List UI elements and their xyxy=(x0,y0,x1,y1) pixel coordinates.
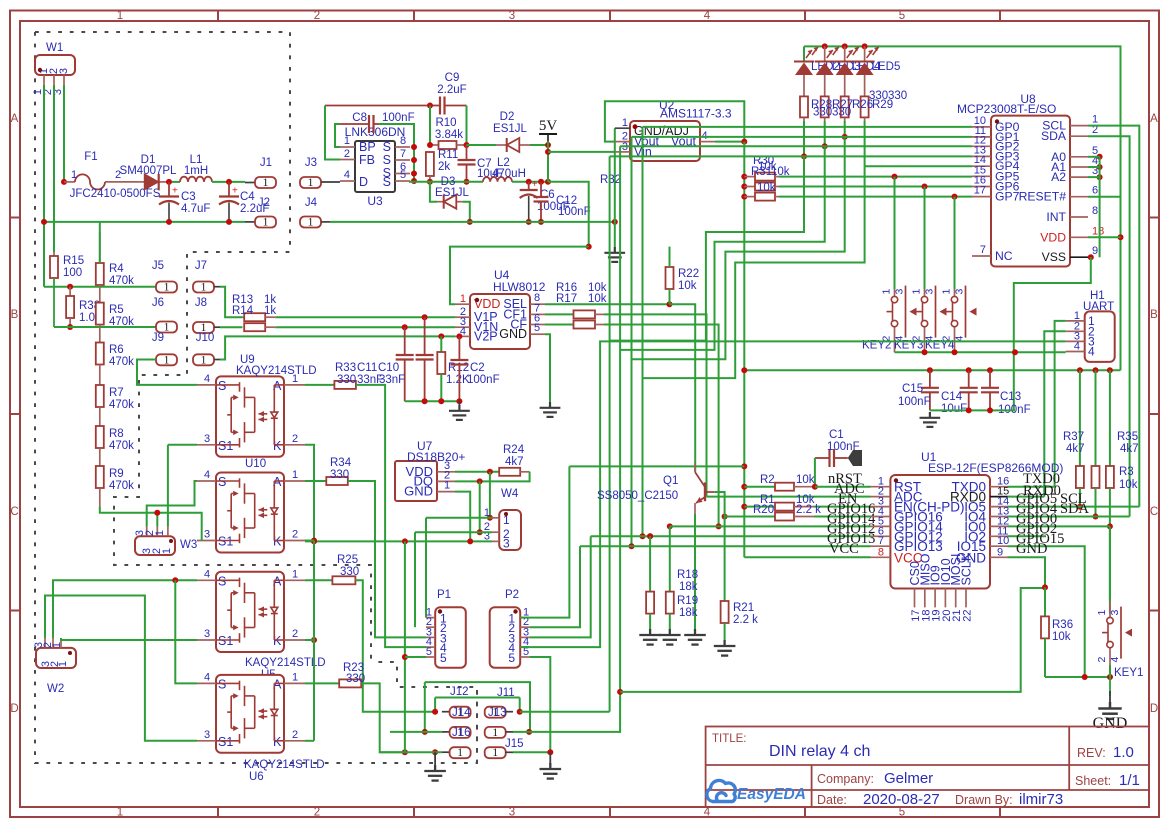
svg-text:R20: R20 xyxy=(753,504,774,516)
svg-text:1: 1 xyxy=(292,469,298,481)
svg-text:S: S xyxy=(218,677,226,691)
svg-text:DS18B20+: DS18B20+ xyxy=(407,450,465,464)
wire GPIO16 row xyxy=(814,516,871,518)
svg-text:J3: J3 xyxy=(305,157,317,169)
capacitor C3 4.7uF xyxy=(168,182,170,197)
svg-text:5: 5 xyxy=(426,646,432,658)
svg-text:J10: J10 xyxy=(196,332,215,344)
A0 A1 A2 junction dots xyxy=(1097,154,1103,160)
svg-text:LED5: LED5 xyxy=(872,61,901,73)
dashed isolation boundary (mains side) xyxy=(35,32,371,662)
svg-text:10k: 10k xyxy=(1119,479,1138,491)
svg-text:C4: C4 xyxy=(240,191,255,203)
svg-text:10k: 10k xyxy=(1052,631,1071,643)
svg-text:330: 330 xyxy=(869,90,888,102)
resistor R34 330 xyxy=(326,477,348,485)
svg-text:W2: W2 xyxy=(47,683,64,695)
svg-text:C8: C8 xyxy=(352,112,367,124)
svg-text:2020-08-27: 2020-08-27 xyxy=(863,791,940,808)
resistor R22 10k xyxy=(667,301,673,307)
LED LED5 xyxy=(864,46,866,61)
svg-text:S: S xyxy=(383,140,391,154)
svg-text:3: 3 xyxy=(509,10,515,22)
connector J1 xyxy=(245,182,255,184)
wire GPIO12 row xyxy=(647,533,653,539)
svg-text:1: 1 xyxy=(492,727,498,739)
node C10 top xyxy=(422,314,428,320)
svg-text:SM4007PL: SM4007PL xyxy=(120,165,178,177)
pad J16 row2 left xyxy=(422,729,428,735)
svg-text:R14: R14 xyxy=(232,305,254,317)
connector J8 xyxy=(193,322,214,333)
wire LED top rail xyxy=(804,46,1121,370)
wire Q1 emitter down xyxy=(694,514,696,629)
svg-text:330: 330 xyxy=(888,90,907,102)
svg-text:S1: S1 xyxy=(218,439,233,453)
wire 5V to U4 supply riser xyxy=(548,182,589,247)
wire J15 row right xyxy=(513,751,550,753)
wire W4.1 to P1.1 xyxy=(425,518,427,618)
svg-text:S1: S1 xyxy=(218,735,233,749)
wire row2 left segment xyxy=(390,731,442,733)
wire P1.5 stub xyxy=(405,656,426,658)
svg-text:U6: U6 xyxy=(249,771,264,783)
wire keys common bottom xyxy=(895,351,1066,353)
ground below R32 line xyxy=(604,247,625,262)
svg-text:J7: J7 xyxy=(195,260,207,272)
ground U4 GND xyxy=(540,402,561,417)
svg-text:D: D xyxy=(10,703,18,715)
wire row3 line xyxy=(380,751,442,753)
svg-text:S: S xyxy=(383,175,391,189)
capacitor C7 10uF xyxy=(466,145,468,160)
svg-text:J1: J1 xyxy=(260,157,272,169)
svg-text:3: 3 xyxy=(509,807,515,819)
svg-text:AMS1117-3.3: AMS1117-3.3 xyxy=(660,107,732,121)
svg-text:6: 6 xyxy=(1092,185,1098,197)
svg-text:R17: R17 xyxy=(556,293,577,305)
svg-text:8: 8 xyxy=(878,546,884,558)
svg-text:4: 4 xyxy=(204,568,210,580)
svg-text:GND: GND xyxy=(404,484,433,499)
svg-text:1: 1 xyxy=(117,10,123,22)
resistor R15 100 xyxy=(53,252,55,256)
wire VDD row to R24 xyxy=(455,471,499,473)
wire W4.2 to P1.2 xyxy=(414,532,416,627)
svg-text:Date:: Date: xyxy=(817,793,847,807)
svg-text:100: 100 xyxy=(63,267,82,279)
svg-text:+: + xyxy=(232,186,238,197)
svg-text:GP7: GP7 xyxy=(995,190,1020,204)
node GND branch xyxy=(1042,584,1048,590)
svg-text:7: 7 xyxy=(400,148,406,160)
wire GP1 row xyxy=(632,136,973,138)
svg-text:5: 5 xyxy=(508,651,515,665)
svg-text:1: 1 xyxy=(308,177,314,189)
svg-text:100nF: 100nF xyxy=(898,396,931,408)
svg-text:5: 5 xyxy=(899,10,905,22)
connector W2 xyxy=(36,648,76,668)
rail junction dots xyxy=(741,367,747,373)
wire R25 out to J12 row1 xyxy=(355,580,435,711)
svg-text:3: 3 xyxy=(204,729,210,741)
svg-text:GND: GND xyxy=(499,327,527,341)
svg-text:KEY1: KEY1 xyxy=(1114,667,1143,679)
wire CF to GPIO14 staircase xyxy=(604,325,719,527)
node R35 SDA xyxy=(1093,514,1099,520)
resistor R20 2.2k xyxy=(722,514,728,520)
wire R33 out to P1.4 xyxy=(356,385,426,647)
wire LED4 col to GP1 xyxy=(844,121,846,137)
svg-text:4: 4 xyxy=(704,10,711,22)
resistor R14 1k xyxy=(244,323,265,331)
svg-text:470k: 470k xyxy=(109,275,134,287)
wire U5.A to R25 xyxy=(305,579,332,581)
svg-text:VSS: VSS xyxy=(1042,250,1066,264)
photoMOS relay U9 KAQY214STLD xyxy=(216,376,284,456)
wire 5V column xyxy=(547,141,549,182)
resistor R1 10k xyxy=(741,504,747,510)
svg-text:8: 8 xyxy=(400,135,406,147)
svg-text:1: 1 xyxy=(881,289,893,295)
svg-text:ES1JL: ES1JL xyxy=(435,187,469,199)
net flag GND at C1 xyxy=(848,450,862,466)
svg-text:1: 1 xyxy=(292,568,298,580)
svg-text:KAQY214STLD: KAQY214STLD xyxy=(236,365,317,377)
wire C9 left to FB xyxy=(325,106,340,160)
key column junctions xyxy=(892,174,898,180)
resistor R26 330 xyxy=(841,96,849,117)
svg-text:GND: GND xyxy=(1093,715,1128,732)
svg-text:4: 4 xyxy=(1088,345,1095,359)
wire U4 GND down xyxy=(545,334,550,402)
svg-text:J16: J16 xyxy=(452,727,471,739)
svg-text:REV:: REV: xyxy=(1077,746,1106,760)
svg-text:1: 1 xyxy=(941,289,953,295)
svg-text:J6: J6 xyxy=(152,297,164,309)
resistor R31 10k xyxy=(741,184,747,190)
wire J4 ground line xyxy=(330,221,615,223)
svg-text:F1: F1 xyxy=(84,151,97,163)
wire GP0 staircase column xyxy=(642,127,644,536)
svg-text:W3: W3 xyxy=(180,539,197,551)
LED rail junction dots xyxy=(822,43,828,49)
push button KEY3 xyxy=(924,280,926,296)
node R3 GPIO0 xyxy=(1107,523,1113,529)
svg-text:4k7: 4k7 xyxy=(1066,443,1085,455)
resistor R33 330 xyxy=(334,381,356,389)
ground KEY1 xyxy=(1098,702,1121,719)
wire Q1 base to R20 xyxy=(714,492,724,517)
wire KEY1 bottom row xyxy=(1045,676,1110,678)
node C4 top xyxy=(226,179,232,185)
wire C8 right to S pins xyxy=(379,124,414,181)
resistor R13 1k xyxy=(243,316,245,318)
wire 3V3 rail xyxy=(744,369,1120,371)
IC U8 MCP23008T-E/SO xyxy=(991,116,1070,267)
node C9/R11 column top xyxy=(427,103,433,109)
svg-text:S: S xyxy=(383,153,391,167)
svg-text:J9: J9 xyxy=(152,332,164,344)
svg-text:C3: C3 xyxy=(181,191,196,203)
svg-text:1: 1 xyxy=(201,282,207,294)
svg-text:2: 2 xyxy=(292,529,298,541)
svg-text:J13: J13 xyxy=(488,707,507,719)
wire R14 row to V1N xyxy=(275,326,450,328)
svg-text:1: 1 xyxy=(263,177,269,189)
svg-text:R9: R9 xyxy=(109,468,124,480)
svg-text:3: 3 xyxy=(204,628,210,640)
wire GP2 row xyxy=(620,145,972,147)
svg-text:B: B xyxy=(1150,309,1158,321)
svg-text:10k: 10k xyxy=(678,280,697,292)
svg-text:3: 3 xyxy=(204,529,210,541)
wire IO5 SCL row xyxy=(1008,506,1140,508)
svg-text:A: A xyxy=(11,113,19,125)
svg-text:1: 1 xyxy=(344,135,350,147)
wire GND pin row xyxy=(1008,557,1046,587)
junction dots AC bus xyxy=(41,219,47,225)
svg-text:1: 1 xyxy=(201,354,207,366)
svg-text:C6: C6 xyxy=(540,189,555,201)
svg-text:4: 4 xyxy=(204,373,210,385)
resistor pull-up third xyxy=(741,194,747,200)
svg-text:TITLE:: TITLE: xyxy=(712,733,747,745)
cap gnd junction dots xyxy=(966,407,972,413)
pad J14 row1 left xyxy=(432,709,438,715)
wire R9 bottom to relay area xyxy=(100,507,158,513)
node R38 bottom xyxy=(67,324,73,330)
svg-text:R24: R24 xyxy=(503,444,525,456)
svg-text:R36: R36 xyxy=(1052,619,1073,631)
wire C9 right drop xyxy=(466,106,468,146)
svg-text:C: C xyxy=(1150,506,1158,518)
svg-text:R35: R35 xyxy=(1117,431,1138,443)
svg-text:R15: R15 xyxy=(63,255,84,267)
push button KEY1 xyxy=(1109,601,1111,617)
wire R23 out to J row3 xyxy=(361,683,405,752)
wire C8 left loop to BP xyxy=(335,124,340,147)
wire R32 column xyxy=(614,128,616,247)
svg-text:UART: UART xyxy=(1083,301,1114,313)
resistor R27 330 xyxy=(821,96,829,117)
wire R13 row to V1P xyxy=(275,316,450,318)
svg-text:1.0: 1.0 xyxy=(79,312,95,324)
svg-text:1: 1 xyxy=(492,747,498,759)
svg-text:2: 2 xyxy=(292,628,298,640)
IC U2 AMS1117-3.3 xyxy=(630,121,700,161)
wire U5.S to U6.S xyxy=(175,580,197,683)
svg-text:W1: W1 xyxy=(46,42,63,54)
svg-text:5: 5 xyxy=(440,651,447,665)
svg-text:BP: BP xyxy=(359,140,376,154)
connector J5 xyxy=(156,282,177,293)
wire U6.K row xyxy=(402,749,408,755)
wire 3V3 rail to U1 xyxy=(741,463,747,469)
resistor R23 330 xyxy=(339,679,361,687)
transistor Q1 SS8050 xyxy=(704,482,706,501)
svg-text:1: 1 xyxy=(911,289,923,295)
capacitor C10 33nF xyxy=(424,317,426,355)
IC U7 DS18B20+ xyxy=(395,461,437,501)
svg-text:10k: 10k xyxy=(796,474,815,486)
svg-text:2: 2 xyxy=(314,10,320,22)
svg-text:3: 3 xyxy=(58,68,70,74)
svg-text:Sheet:: Sheet: xyxy=(1075,774,1111,788)
svg-text:18k: 18k xyxy=(679,607,698,619)
svg-text:J5: J5 xyxy=(152,260,164,272)
wire GP1 staircase column xyxy=(631,137,633,546)
svg-text:1: 1 xyxy=(51,642,63,648)
push button KEY2 xyxy=(894,280,896,296)
wire IO0 row xyxy=(1008,525,1110,527)
wire Vin branch xyxy=(545,149,551,155)
wire W3.1 up to U9.S1 xyxy=(167,445,169,527)
wire DQ to W4.2 xyxy=(479,481,481,532)
resistor R7 470k xyxy=(96,385,104,407)
svg-text:A: A xyxy=(1150,113,1158,125)
svg-text:J2: J2 xyxy=(258,197,270,209)
wire U9.S1 left xyxy=(168,444,197,446)
wire row2 right to GND bus riser xyxy=(526,729,532,735)
svg-text:1mH: 1mH xyxy=(184,165,208,177)
svg-text:C: C xyxy=(10,506,18,518)
capacitor C9 2.2uF xyxy=(325,105,440,107)
node GPIO15 bottom xyxy=(1082,674,1088,680)
wire VSS to ground bus xyxy=(1088,254,1094,260)
node U5.S junction xyxy=(172,577,178,583)
wire GP2 staircase column xyxy=(619,146,621,692)
resistor R21 2.2k xyxy=(724,517,726,602)
resistor R25 330 xyxy=(332,576,355,584)
ground cap bank xyxy=(920,412,941,427)
node 3V3 trunk top xyxy=(741,139,747,145)
svg-text:4k7: 4k7 xyxy=(1120,443,1139,455)
svg-text:C2: C2 xyxy=(470,362,485,374)
wire U9.K to K bus xyxy=(305,445,314,541)
wire R3 to KEY1 xyxy=(1109,526,1111,601)
svg-text:Drawn By:: Drawn By: xyxy=(955,793,1013,807)
resistor R5 470k xyxy=(99,287,101,303)
wire U10.S left W3.3 xyxy=(147,481,197,527)
svg-text:3: 3 xyxy=(204,433,210,445)
svg-text:R37: R37 xyxy=(1063,431,1084,443)
connector J9 xyxy=(156,354,177,365)
resistor R24 4k7 xyxy=(499,468,520,476)
svg-text:100nF: 100nF xyxy=(467,374,500,386)
wire R34 out to P1.3 xyxy=(348,481,426,637)
svg-text:R7: R7 xyxy=(109,387,124,399)
wire VDD to rail xyxy=(1118,234,1124,240)
diode D1 SM4007PL xyxy=(137,181,144,183)
svg-text:4: 4 xyxy=(204,469,210,481)
svg-text:R25: R25 xyxy=(337,554,358,566)
capacitor C1 100nF xyxy=(815,457,830,459)
svg-text:VCC: VCC xyxy=(829,541,859,557)
wire U6.A to R23 xyxy=(305,682,339,684)
wire U4 VDD riser xyxy=(450,247,589,305)
svg-text:5: 5 xyxy=(534,322,540,334)
wire AC bottom bus xyxy=(44,221,245,223)
wire J10 to V2P row xyxy=(220,336,450,359)
svg-text:100nF: 100nF xyxy=(558,206,591,218)
svg-text:1: 1 xyxy=(308,217,314,229)
svg-text:1: 1 xyxy=(457,747,463,759)
wire R11 column xyxy=(429,106,431,146)
node DQ branch xyxy=(477,478,483,484)
connector J3 xyxy=(300,177,321,188)
svg-text:3: 3 xyxy=(894,289,906,295)
svg-text:Company:: Company: xyxy=(817,772,874,786)
svg-text:R3: R3 xyxy=(1119,466,1134,478)
svg-text:2: 2 xyxy=(292,433,298,445)
capacitor C11 33nF xyxy=(404,327,406,355)
svg-text:ilmir73: ilmir73 xyxy=(1019,791,1063,808)
wire LED3 col to GP2 xyxy=(824,121,826,146)
resistor R3 10k xyxy=(1109,370,1111,466)
wire GP3 staircase column xyxy=(609,156,611,711)
svg-text:4: 4 xyxy=(704,807,711,819)
resistor R18 18k xyxy=(647,533,653,539)
wire GP4 row xyxy=(865,165,972,167)
wire VCC row xyxy=(744,556,870,558)
pad J15 row3 right xyxy=(485,747,506,758)
wire W4.1 row xyxy=(426,517,492,519)
svg-text:KAQY214STLD: KAQY214STLD xyxy=(244,759,325,771)
svg-text:J4: J4 xyxy=(305,197,318,209)
svg-text:1: 1 xyxy=(71,169,77,181)
svg-text:LNK306DN: LNK306DN xyxy=(345,125,406,139)
LED LED2 xyxy=(803,46,805,61)
resistor R11 2k xyxy=(426,152,434,176)
svg-text:8: 8 xyxy=(1092,205,1098,217)
connector J7 xyxy=(193,282,214,293)
resistor R12 1.2K xyxy=(440,336,442,352)
svg-text:1: 1 xyxy=(460,293,466,305)
wire SEL extension to Q1 collector xyxy=(670,304,696,472)
node V2P R12 xyxy=(438,333,444,339)
node F1 input xyxy=(61,179,67,185)
svg-text:2k: 2k xyxy=(438,161,450,173)
svg-text:+: + xyxy=(172,186,178,197)
push button KEY4 xyxy=(954,280,956,296)
svg-text:J8: J8 xyxy=(195,297,207,309)
node R11 bottom xyxy=(427,179,433,185)
wire TXD0 row xyxy=(1008,486,1055,488)
node R38 top xyxy=(67,284,73,290)
svg-text:D: D xyxy=(359,175,368,189)
svg-text:GND: GND xyxy=(1016,541,1047,557)
wire W2.3 to U6.S1 xyxy=(45,596,197,741)
wire W1.2 down to R15 xyxy=(53,85,55,252)
svg-text:J15: J15 xyxy=(505,738,524,750)
pad J13 row1 right xyxy=(517,709,523,715)
wire inner U row1 xyxy=(435,697,520,699)
capacitor C13 100nF xyxy=(989,370,991,388)
node P1.5 xyxy=(402,654,408,660)
ground U4 caps xyxy=(458,401,460,407)
wire P2.2 from GPIO13 xyxy=(530,546,580,627)
node W4.1 riser xyxy=(487,469,493,475)
wire J7 to R13 xyxy=(220,287,243,318)
node R10 right xyxy=(464,142,470,148)
svg-text:C1: C1 xyxy=(829,429,844,441)
wire nRST to RST xyxy=(815,486,871,488)
wire GP4 staircase upper xyxy=(643,166,865,378)
connector J2 xyxy=(245,221,255,223)
svg-text:P2: P2 xyxy=(505,589,519,601)
svg-text:1: 1 xyxy=(444,480,450,492)
